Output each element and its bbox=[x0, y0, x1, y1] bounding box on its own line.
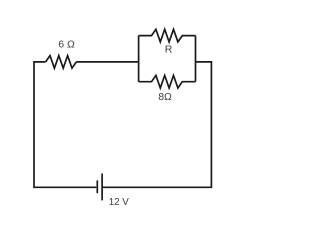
resistor R2 "R" top branch zigzag with leads bbox=[139, 29, 196, 42]
svg-text:12 V: 12 V bbox=[109, 197, 130, 208]
battery B1 positive terminal (long plate) bbox=[101, 174, 103, 201]
wire: left branch (top-left corner, left vertical, bottom wire to battery negative terminal) bbox=[34, 62, 96, 187]
wire: parallel box left edge bbox=[138, 36, 140, 82]
battery B1 negative terminal (short plate) bbox=[96, 180, 98, 193]
wire: parallel box right edge bbox=[195, 36, 197, 82]
wire: top wire from R1 to parallel section bbox=[76, 61, 138, 63]
wire: right branch (to top-right corner, right vertical, bottom wire to battery positive terminal) bbox=[103, 62, 212, 187]
resistor R3 8 ohm bottom branch zigzag with leads bbox=[139, 75, 196, 88]
resistor R1 6 ohm zigzag bbox=[46, 56, 77, 69]
svg-text:R: R bbox=[165, 44, 173, 56]
svg-text:8Ω: 8Ω bbox=[158, 91, 172, 103]
svg-text:6 Ω: 6 Ω bbox=[58, 38, 75, 50]
